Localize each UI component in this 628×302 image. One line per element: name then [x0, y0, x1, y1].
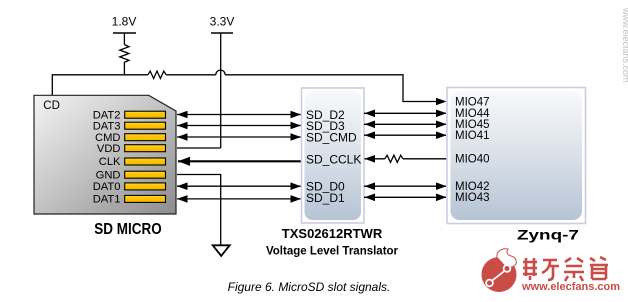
svg-text:GND: GND: [96, 169, 121, 181]
svg-text:Figure 6. MicroSD slot signals: Figure 6. MicroSD slot signals.: [228, 280, 391, 294]
SD micro card body: [34, 95, 176, 214]
svg-text:CD: CD: [43, 100, 60, 112]
power symbol 3.3V: [210, 15, 235, 34]
wire CD rail right segment to MIO47: [225, 75, 441, 102]
resistor series on CD rail (horizontal): [148, 71, 166, 78]
wire DAT0 to SD_D0 (bidirectional): [177, 182, 301, 190]
svg-text:DAT3: DAT3: [93, 120, 121, 132]
svg-text:Zynq-7: Zynq-7: [517, 227, 579, 243]
wire SD_D1 to MIO43 (bidirectional): [364, 194, 447, 202]
svg-text:MIO44: MIO44: [455, 108, 490, 120]
svg-text:MIO43: MIO43: [455, 192, 490, 204]
svg-text:Voltage Level Translator: Voltage Level Translator: [266, 246, 399, 258]
svg-text:SD_CMD: SD_CMD: [306, 130, 357, 144]
svg-text:3.3V: 3.3V: [210, 15, 235, 29]
pad GND: [96, 169, 166, 181]
svg-text:SD MICRO: SD MICRO: [94, 221, 161, 238]
svg-text:VDD: VDD: [97, 143, 121, 155]
wire SD_CCLK from MIO40 right part: [403, 158, 447, 160]
wire GND to ground: [177, 175, 221, 246]
svg-text:DAT0: DAT0: [93, 181, 121, 193]
arrow into MIO47: [436, 98, 447, 106]
pad CMD: [95, 132, 165, 144]
pad CLK: [99, 156, 166, 168]
watermark chinese characters: [523, 257, 608, 281]
wire CD rail left segment: [52, 75, 148, 96]
svg-text:MIO47: MIO47: [455, 97, 490, 109]
pad VDD: [97, 143, 166, 155]
wire VDD to 3.3V: [177, 147, 221, 149]
wire DAT3 to SD_D3 (bidirectional): [177, 122, 301, 130]
ground symbol: [213, 245, 230, 256]
wire SD_D2 to MIO44 (bidirectional): [364, 110, 447, 118]
svg-text:MIO40: MIO40: [455, 153, 490, 165]
wire SD_D0 to MIO42 (bidirectional): [364, 182, 447, 190]
level translator U1 TXS02612RTWR: [302, 88, 365, 223]
resistor series on SD_CCLK: [385, 155, 403, 162]
wire SD_D3 to MIO45 (bidirectional): [364, 121, 447, 129]
power symbol 1.8V: [112, 15, 137, 45]
watermark logo bottom right: [482, 249, 517, 292]
svg-text:1.8V: 1.8V: [112, 15, 137, 29]
wire CLK from SD_CCLK (arrow into card): [178, 157, 302, 166]
wire CMD to SD_CMD (bidirectional): [177, 133, 301, 141]
pad DAT3: [93, 120, 166, 132]
pad DAT1: [93, 194, 166, 206]
svg-text:CLK: CLK: [99, 156, 121, 168]
svg-text:SD_D1: SD_D1: [306, 191, 345, 205]
svg-text:SD_CCLK: SD_CCLK: [306, 153, 361, 167]
wire DAT2 to SD_D2 (bidirectional): [177, 111, 301, 119]
wire DAT1 to SD_D1 (bidirectional): [177, 195, 301, 203]
svg-text:www.elecfans.com: www.elecfans.com: [521, 281, 620, 293]
Zynq-7 device U2: [447, 88, 586, 224]
pad DAT2: [93, 109, 166, 121]
pad DAT0: [93, 181, 166, 193]
svg-text:TXS02612RTWR: TXS02612RTWR: [282, 226, 383, 241]
resistor pull-up on CD (vertical): [120, 45, 129, 75]
wire SD_CMD to MIO41 (bidirectional): [364, 131, 447, 139]
svg-text:MIO41: MIO41: [455, 130, 490, 142]
svg-text:DAT1: DAT1: [93, 194, 121, 206]
wire CD rail middle segment up to hop: [166, 74, 216, 76]
wire 3.3V vertical to VDD: [220, 33, 222, 148]
wire SD_CCLK from MIO40 left part: [365, 155, 385, 163]
wire hop over 3.3V line: [216, 70, 225, 75]
svg-text:www.elecfans.com: www.elecfans.com: [621, 7, 628, 83]
